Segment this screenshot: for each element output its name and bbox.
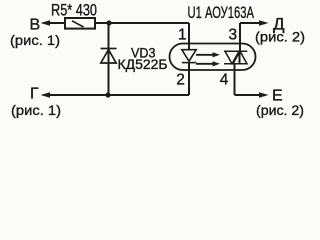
diode VD3 <box>101 49 117 64</box>
svg-text:2: 2 <box>176 71 185 88</box>
svg-text:Г: Г <box>30 86 39 103</box>
svg-text:(рис. 2): (рис. 2) <box>255 29 305 45</box>
wire resistor to pin1 <box>95 22 189 24</box>
svg-text:(рис. 1): (рис. 1) <box>10 32 60 48</box>
junction dot bottom <box>105 92 110 97</box>
arrowhead node G <box>41 92 51 98</box>
svg-text:1: 1 <box>178 26 187 43</box>
pin 2 wire <box>188 63 190 95</box>
wire bottom rail G to pin2 <box>44 94 189 96</box>
resistor R5 <box>65 18 95 29</box>
svg-text:R5* 430: R5* 430 <box>51 2 97 20</box>
arrowhead node E <box>259 92 269 98</box>
svg-text:3: 3 <box>228 26 237 43</box>
svg-text:(рис. 2): (рис. 2) <box>256 102 304 118</box>
svg-text:В: В <box>30 16 41 33</box>
light arrow 2 <box>196 63 213 65</box>
diode branch wire <box>108 23 110 95</box>
arrowhead node D <box>259 20 269 26</box>
svg-text:(рис. 1): (рис. 1) <box>11 102 61 118</box>
pin 4 wire <box>235 64 261 95</box>
light arrow 1 <box>196 52 220 66</box>
svg-text:4: 4 <box>220 71 229 88</box>
svg-text:U1 АОУ163А: U1 АОУ163А <box>188 4 255 22</box>
svg-text:КД522Б: КД522Б <box>118 57 168 72</box>
arrowhead node B <box>41 20 51 26</box>
triac inside U1 <box>224 51 247 64</box>
wire B to resistor <box>44 22 66 24</box>
junction dot top <box>106 20 111 25</box>
pin 3 wire <box>240 23 261 64</box>
LED inside U1 <box>182 50 196 63</box>
optocoupler U1 body <box>170 44 256 71</box>
pin 1 wire <box>188 23 190 50</box>
